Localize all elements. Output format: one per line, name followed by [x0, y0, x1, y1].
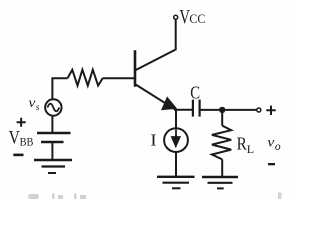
svg-text:R: R [237, 134, 247, 154]
svg-text:v: v [267, 135, 274, 150]
svg-text:o: o [275, 141, 281, 153]
svg-text:v: v [29, 96, 36, 111]
svg-text:BB: BB [20, 136, 34, 149]
svg-text:I: I [150, 130, 156, 149]
svg-text:s: s [36, 103, 40, 113]
svg-text:C: C [190, 85, 200, 103]
svg-text:L: L [247, 142, 254, 156]
svg-text:CC: CC [189, 12, 205, 27]
svg-text:V: V [9, 127, 21, 148]
